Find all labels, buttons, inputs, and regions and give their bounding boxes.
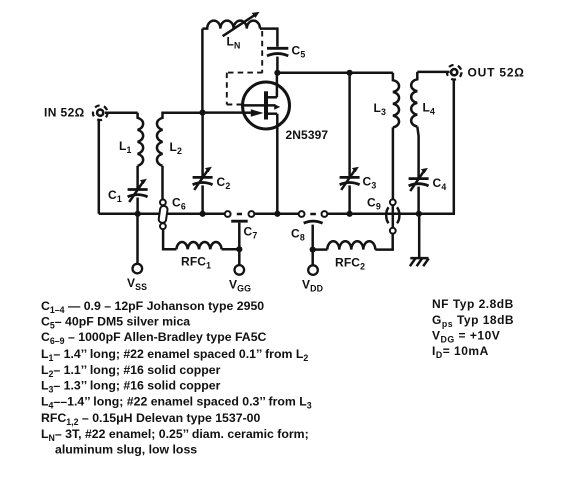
wire junction to VDD — [311, 250, 314, 266]
bus segment C7-C8 — [254, 213, 298, 216]
wire RFC2 to C9 — [375, 234, 392, 250]
wire C6 to RFC1 — [163, 229, 176, 249]
dashed link LN to gate — [261, 31, 263, 73]
wire C3 leg top — [348, 73, 351, 177]
capacitor C8 (feedthrough) — [299, 211, 328, 250]
wire RFC1 to junction — [222, 248, 240, 251]
bus segment C8-right — [327, 213, 453, 216]
capacitor C2 (variable) — [193, 167, 213, 190]
wire L2 to C6 — [161, 166, 164, 200]
capacitor C7 (feedthrough) — [225, 211, 255, 249]
node VGG junction — [236, 246, 242, 252]
node ground junction — [416, 211, 422, 217]
OUT terminal — [447, 65, 462, 80]
wire C5 to drain node — [276, 57, 279, 73]
svg-text:C1–4 — 0.9 – 12pF Johanson typ: C1–4 — 0.9 – 12pF Johanson type 2950 — [41, 299, 264, 315]
wire junction to VSS — [136, 214, 139, 264]
node gate bus junction — [199, 110, 205, 116]
LN adjust arrow — [223, 15, 255, 36]
wire drain bus to L3 — [277, 72, 393, 75]
wire drain — [276, 73, 279, 98]
wire C3 to bus — [348, 185, 351, 213]
inductor LN left leg wire — [201, 29, 204, 113]
wire L3 to C9 — [392, 127, 395, 199]
capacitor C6 (feedthrough) — [158, 200, 168, 230]
notes text block — [41, 299, 312, 457]
VDD terminal — [308, 265, 318, 275]
svg-text:NF Typ 2.8dB: NF Typ 2.8dB — [432, 297, 514, 311]
node source bus junction — [274, 211, 280, 217]
inductor LN — [202, 21, 260, 29]
wire VDD junction to RFC2 — [313, 248, 328, 251]
svg-text:IN 52Ω: IN 52Ω — [44, 106, 85, 120]
wire to ground — [418, 214, 421, 258]
wire L1 to C1 — [136, 166, 139, 189]
capacitor C5 — [267, 48, 288, 56]
svg-text:C6–9 – 1000pF Allen-Bradley ty: C6–9 – 1000pF Allen-Bradley type FA5C — [41, 330, 267, 346]
node C3 top junction — [347, 70, 353, 76]
IN terminal — [93, 105, 108, 120]
VGG terminal — [235, 265, 245, 275]
node C1/VSS junction — [135, 211, 141, 217]
wire LN right to C5 — [260, 29, 277, 47]
wire junction to VGG — [238, 249, 241, 265]
capacitor C3 (variable) — [340, 167, 360, 190]
capacitor C4 (variable) — [409, 168, 429, 191]
transistor Q1 2N5397 — [243, 82, 290, 129]
node C2 bus junction — [200, 211, 206, 217]
wire IN to L1 top — [105, 112, 138, 115]
capacitor C1 (variable) — [128, 179, 148, 202]
node C3 bus junction — [347, 211, 353, 217]
inductor L1 — [138, 113, 144, 166]
wire C1 to bus — [136, 198, 139, 214]
wire gate bus to transistor — [203, 111, 244, 114]
node drain junction — [274, 70, 280, 76]
wire C4 to bus — [417, 187, 420, 214]
svg-text:L1– 1.4’’ long; #22 enamel spa: L1– 1.4’’ long; #22 enamel spaced 0.1’’ … — [41, 347, 308, 363]
wire C2 to bus — [201, 185, 204, 213]
wire C2 leg top — [201, 113, 204, 177]
inductor RFC2 — [327, 241, 375, 249]
wire OUT down to bus — [419, 80, 454, 214]
node VDD junction — [310, 247, 316, 253]
ground — [410, 258, 429, 266]
wire source to bus — [276, 114, 279, 214]
inductor L2 — [157, 113, 203, 166]
specs text block — [432, 297, 514, 360]
svg-text:2N5397: 2N5397 — [286, 128, 329, 142]
svg-text:L3– 1.3’’ long; #16 solid copp: L3– 1.3’’ long; #16 solid copper — [41, 379, 221, 395]
svg-text:aluminum slug, low loss: aluminum slug, low loss — [55, 443, 197, 457]
svg-text:L4––1.4’’ long; #22 enamel spa: L4––1.4’’ long; #22 enamel spaced 0.3’’ … — [41, 395, 312, 411]
inductor RFC1 — [176, 242, 221, 249]
wire L4 to OUT — [417, 71, 449, 74]
inductor L4 — [411, 72, 417, 127]
svg-text:L2– 1.1’’ long; #16 solid copp: L2– 1.1’’ long; #16 solid copper — [41, 363, 221, 379]
wire L4 to C4 — [417, 127, 418, 179]
dashed top segment — [227, 72, 263, 74]
svg-text:LN– 3T, #22 enamel; 0.25’’ dia: LN– 3T, #22 enamel; 0.25’’ diam. ceramic… — [41, 427, 309, 443]
dashed bottom segment — [227, 104, 243, 106]
svg-text:C5– 40pF DM5 silver mica: C5– 40pF DM5 silver mica — [41, 315, 190, 331]
dashed left segment — [226, 73, 228, 105]
capacitor C9 (feedthrough) — [386, 199, 399, 233]
svg-text:OUT 52Ω: OUT 52Ω — [468, 66, 525, 80]
inductor L3 — [393, 73, 399, 128]
main bus left segment — [99, 213, 225, 216]
VSS terminal — [133, 264, 143, 274]
wire IN down to bus — [98, 121, 101, 214]
